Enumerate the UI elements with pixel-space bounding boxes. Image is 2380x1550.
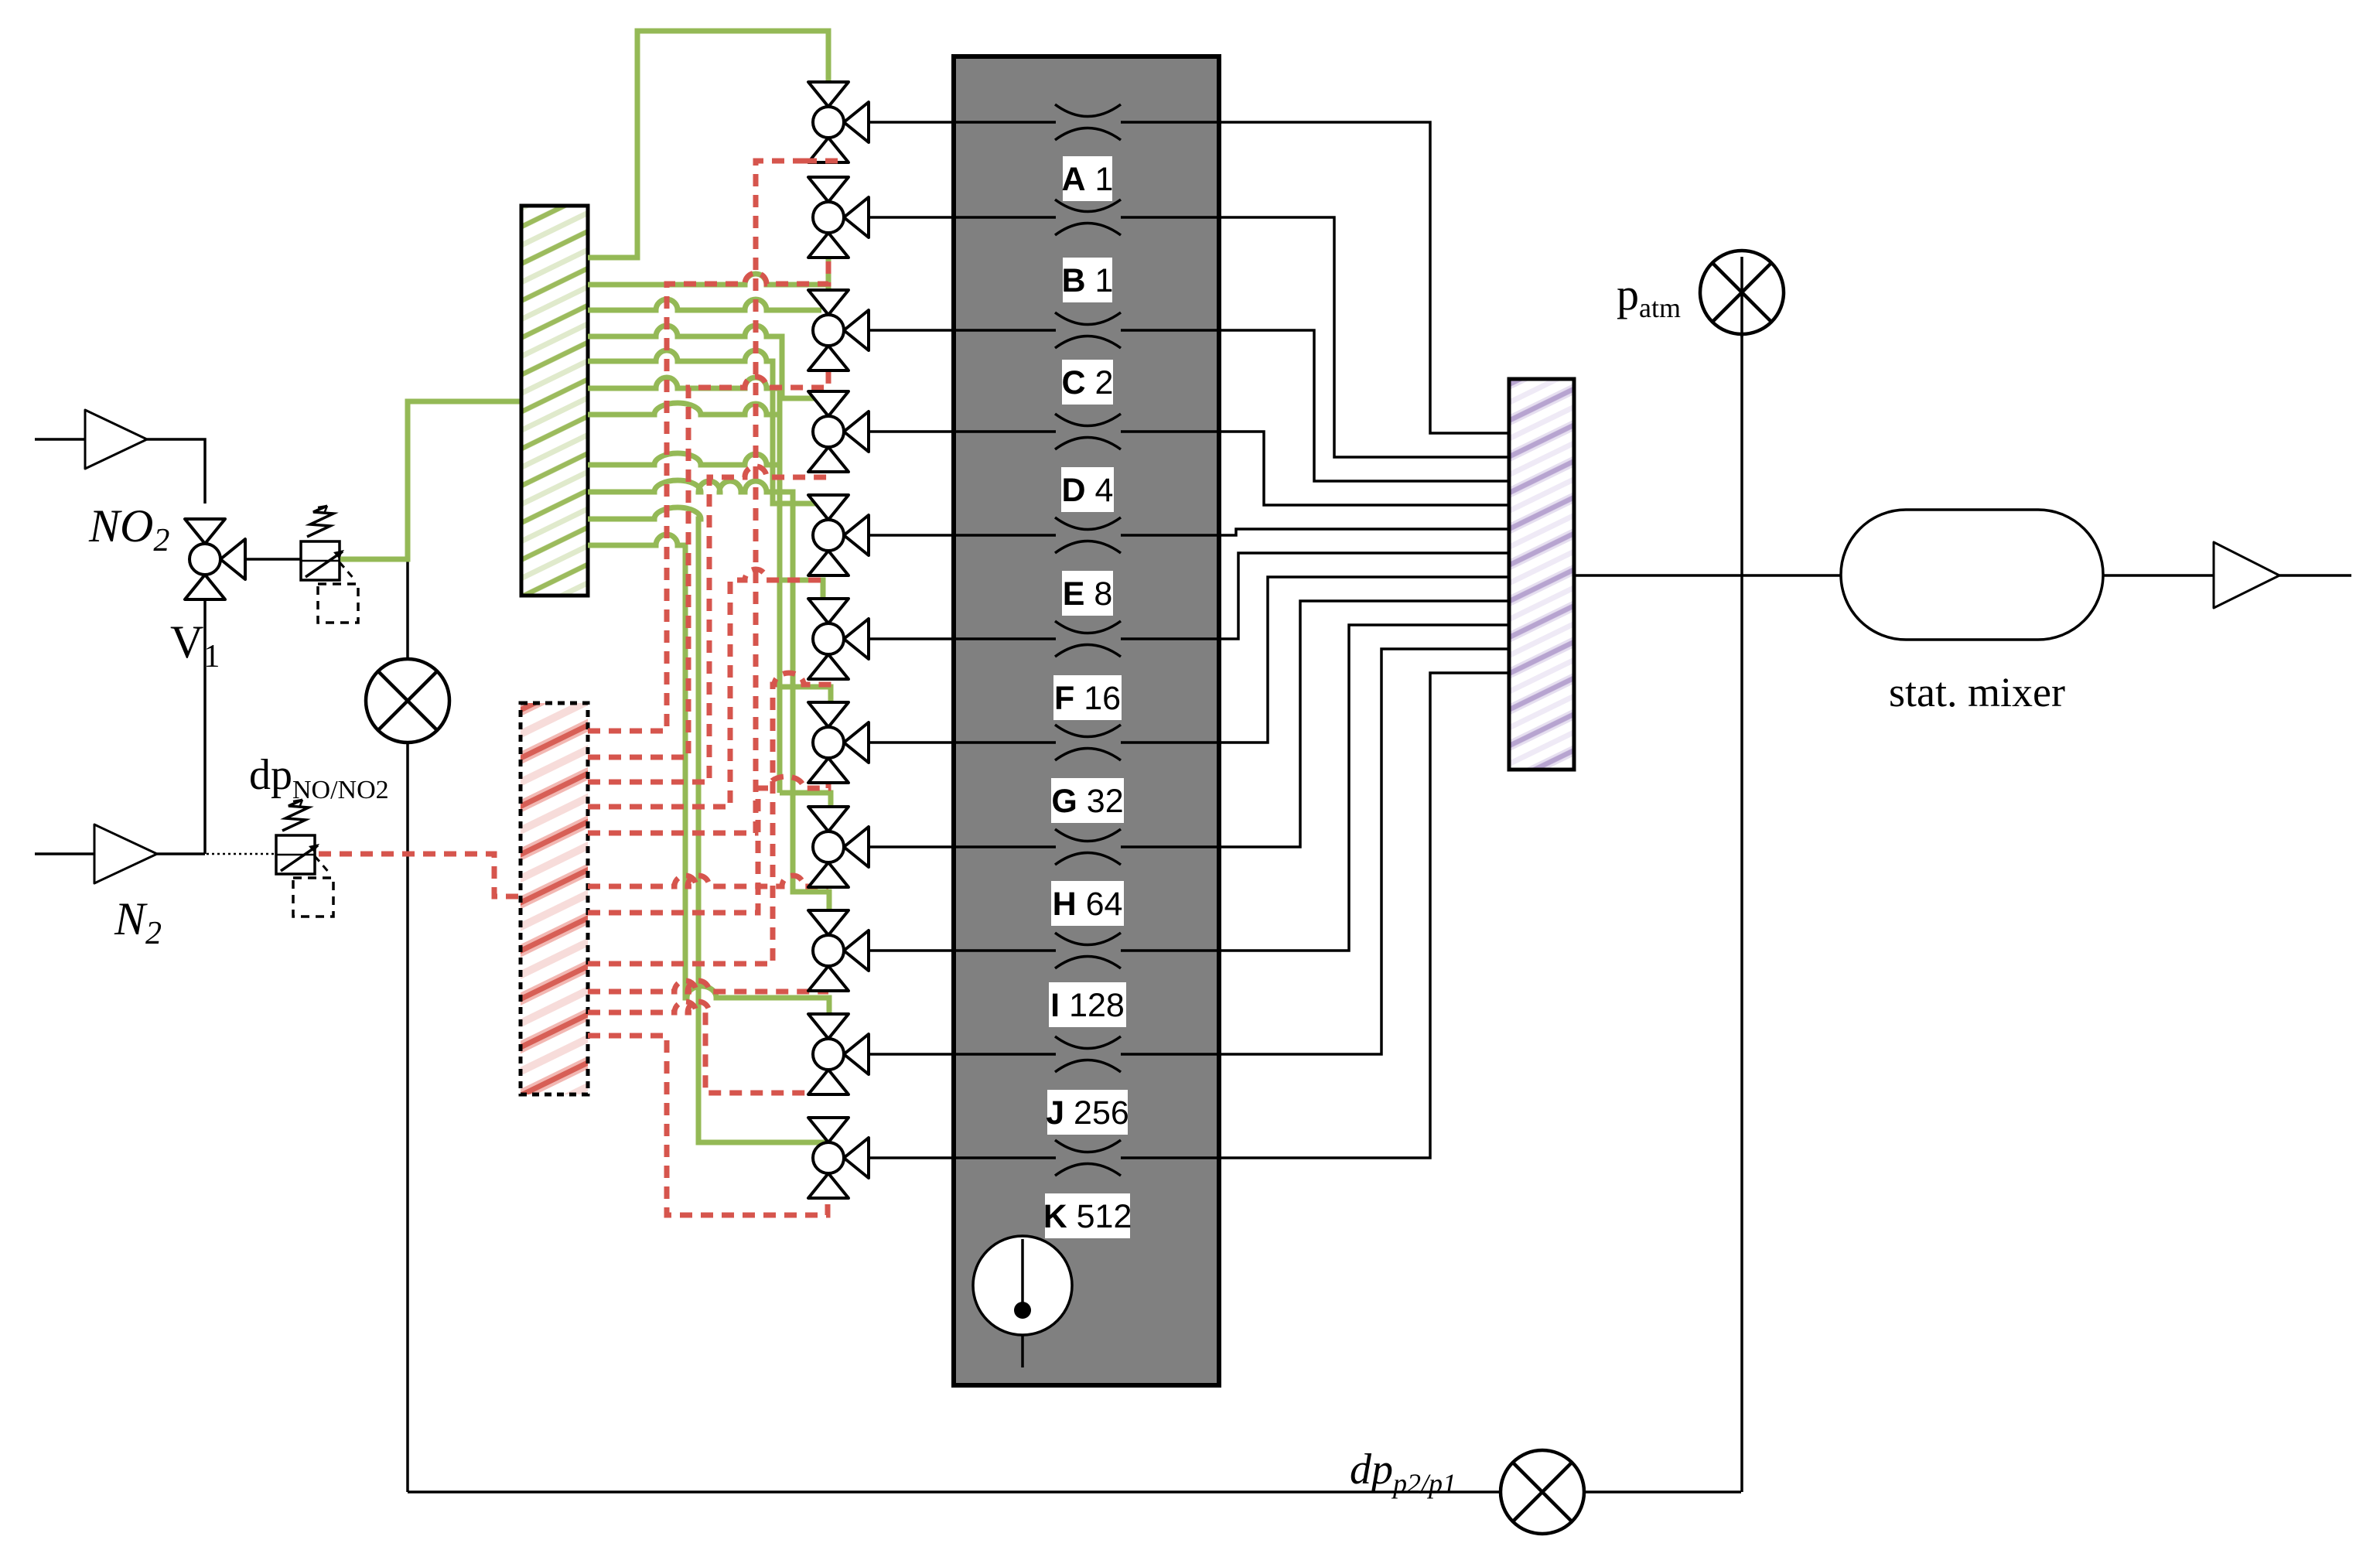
svg-text:F 16: F 16: [1054, 680, 1121, 717]
wire: green line B (manifold to valve B bottom, stub to C top): [588, 274, 828, 285]
wire: line through panel row G: [956, 741, 1217, 744]
wire: V1 to NO2 regulator: [245, 558, 301, 561]
wire: N2 inlet line: [35, 852, 205, 855]
valve E (3-way solenoid): [808, 495, 869, 575]
N2 inlet arrow: [94, 825, 157, 883]
svg-text:J 256: J 256: [1046, 1094, 1129, 1132]
pressure gauge: [973, 1236, 1072, 1335]
wire: green line H (joins riser): [588, 453, 780, 465]
orifice J: [1055, 1036, 1121, 1072]
wire: red line to valve H bottom: [588, 876, 828, 889]
wire: line through panel row E: [956, 534, 1217, 537]
manifold block NO2 (green hatched): [521, 206, 588, 596]
valve J (3-way solenoid): [808, 1014, 869, 1094]
valve B (3-way solenoid): [808, 177, 869, 258]
wire: red line to valve G bottom: [588, 777, 828, 913]
wire: green line J (via left drop): [588, 534, 829, 1015]
wire: p_atm vertical line (lower part): [1740, 333, 1743, 1492]
svg-text:E 8: E 8: [1063, 575, 1113, 613]
wire: line through panel row A: [956, 121, 1217, 124]
wire: p_atm tap line through sensor: [1740, 257, 1743, 337]
value label J 256: [1047, 1090, 1128, 1135]
mixing manifold (purple hatched): [1509, 379, 1574, 770]
wire: green line A (manifold to valve A top): [588, 31, 828, 258]
wire: NO2 inlet line: [35, 439, 205, 504]
wire: output line valve C to mixing manifold: [869, 330, 1509, 481]
wire: output line valve I to mixing manifold: [869, 625, 1509, 951]
wire: green NO2 supply from regulator to manifold: [340, 401, 523, 559]
wire: red line to valve E bottom: [588, 569, 823, 807]
wire: green line D: [588, 326, 817, 398]
manifold block N2 (red hatched, dashed border): [521, 703, 588, 1094]
wire: red line to valve B bottom (overlay on green): [588, 261, 828, 731]
orifice B: [1055, 200, 1121, 235]
wire: green line F (long riser feeding F, G, H): [588, 377, 780, 793]
value label C 2: [1062, 360, 1113, 405]
wire: output line valve K to mixing manifold: [869, 673, 1509, 1158]
wire: line through panel row J: [956, 1053, 1217, 1056]
valve V1 (3-way): [185, 519, 245, 599]
wire: main output line: [1574, 574, 1841, 577]
wire: output line valve A to mixing manifold: [869, 122, 1509, 433]
NO2 inlet arrow: [85, 410, 147, 469]
valve I (3-way solenoid): [808, 910, 869, 991]
wire: line through panel row C: [956, 329, 1217, 332]
orifice K: [1055, 1140, 1121, 1176]
outlet arrow: [2214, 542, 2279, 608]
svg-text:B 1: B 1: [1062, 262, 1114, 299]
value label K 512: [1045, 1193, 1130, 1238]
wire: line through panel row D: [956, 430, 1217, 433]
pressure regulator (NO2): [301, 506, 358, 623]
wire: output line valve D to mixing manifold: [869, 432, 1509, 505]
pressure regulator (N2): [276, 800, 333, 917]
svg-text:H 64: H 64: [1053, 886, 1123, 923]
svg-text:K 512: K 512: [1043, 1198, 1132, 1235]
wire: mixer output: [2103, 574, 2351, 577]
wire: green line E: [588, 350, 817, 504]
sensor dp_NO/NO2: [366, 659, 449, 743]
wire: red line to valve F bottom: [588, 673, 828, 964]
orifice D: [1055, 414, 1121, 449]
svg-text:A 1: A 1: [1062, 161, 1114, 198]
wire: line through panel row K: [956, 1156, 1217, 1159]
valve A (3-way solenoid): [808, 82, 869, 162]
value label D 4: [1061, 467, 1114, 512]
wire: red line to valve K bottom: [588, 1036, 828, 1215]
wire: pressure tap from NO2 regulator junction down left side: [406, 559, 409, 1492]
wire: red line to valve I bottom: [588, 981, 828, 992]
wire: line through panel row I: [956, 949, 1217, 952]
wire: output line valve G to mixing manifold: [869, 577, 1509, 743]
orifice F: [1055, 621, 1121, 657]
valve G (3-way solenoid): [808, 702, 869, 783]
stat. mixer vessel: [1841, 510, 2103, 640]
orifice G: [1055, 725, 1121, 760]
wire: green line K (via left drop): [588, 507, 827, 1142]
wire: green line I: [588, 480, 829, 910]
wire: output line valve H to mixing manifold: [869, 601, 1509, 847]
wire: line through panel row F: [956, 637, 1217, 640]
value label B 1: [1063, 258, 1112, 302]
wire: output line valve F to mixing manifold: [869, 553, 1509, 639]
sensor dp_p2/p1: [1501, 1450, 1584, 1534]
orifice A: [1055, 104, 1121, 140]
wire: red line to valve A bottom (long riser): [588, 161, 839, 833]
valve C (3-way solenoid): [808, 290, 869, 370]
wire: line through panel row B: [956, 216, 1217, 219]
valve F (3-way solenoid): [808, 599, 869, 679]
svg-text:I 128: I 128: [1050, 987, 1125, 1024]
svg-text:D 4: D 4: [1062, 472, 1114, 509]
wire: bottom loop to dp_p2/p1: [408, 1490, 1741, 1494]
valve H (3-way solenoid): [808, 807, 869, 887]
wire: red line to valve C bottom: [588, 372, 828, 757]
wire: red N2 supply from regulator to manifold: [319, 854, 522, 896]
orifice E: [1055, 517, 1121, 553]
orifice panel (gray): [954, 56, 1219, 1385]
valve K (3-way solenoid): [808, 1118, 869, 1198]
wire: output line valve J to mixing manifold: [869, 649, 1509, 1054]
value label A 1: [1063, 156, 1112, 201]
value label I 128: [1049, 982, 1126, 1027]
orifice I: [1055, 933, 1121, 968]
wire: red stub under valve A (drawn over valve): [804, 159, 839, 164]
wire: output line valve B to mixing manifold: [869, 217, 1509, 457]
orifice C: [1055, 312, 1121, 348]
svg-text:stat. mixer: stat. mixer: [1889, 669, 2065, 715]
value label H 64: [1051, 881, 1124, 926]
orifice H: [1055, 829, 1121, 865]
value label E 8: [1062, 571, 1113, 616]
value label F 16: [1053, 675, 1122, 720]
sensor p_atm: [1700, 251, 1784, 334]
wire: output line valve E to mixing manifold: [869, 529, 1509, 535]
svg-text:C 2: C 2: [1062, 364, 1114, 401]
value label G 32: [1051, 778, 1124, 823]
wire: green line G (joins riser): [588, 403, 780, 415]
svg-text:G 32: G 32: [1051, 783, 1123, 820]
wire: line through panel row H: [956, 845, 1217, 848]
valve D (3-way solenoid): [808, 391, 869, 472]
wire: green line C (manifold to valve C top): [588, 299, 821, 310]
wire: V1 to N2 junction vertical: [203, 599, 207, 854]
wire: red line to valve J bottom: [588, 1002, 827, 1096]
wire: red line to valve D bottom: [588, 466, 828, 782]
wire: dotted line N2 junction to N2 regulator: [207, 853, 276, 855]
